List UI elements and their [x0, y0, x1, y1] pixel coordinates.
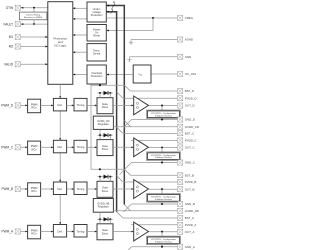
svg-text:PVDD_B: PVDD_B — [185, 180, 197, 184]
pin PWM_D — [15, 103, 20, 108]
wire regulator CD to diode row — [99, 129, 101, 135]
svg-text:Del.: Del. — [57, 145, 62, 149]
diagonal branch D to BST_D — [124, 85, 130, 91]
svg-text:BST_A: BST_A — [185, 216, 194, 220]
wire temp sense out — [73, 51, 87, 53]
pin OUT_B — [178, 187, 183, 192]
svg-text:BST_B: BST_B — [185, 173, 194, 177]
svg-text:PVDD_A: PVDD_A — [185, 223, 197, 227]
svg-text:Pulldown Resistor: Pulldown Resistor — [155, 240, 172, 243]
bootstrap diode D — [104, 91, 109, 95]
config resistor box C — [147, 152, 181, 161]
wire Del to Timing A — [67, 231, 73, 233]
pin PWM_C — [15, 145, 20, 150]
pin AGND — [178, 37, 183, 42]
stub to gate drive C left — [99, 135, 101, 139]
bus1 branch to GVDD_AB line — [124, 205, 130, 212]
wire overload out — [73, 74, 87, 76]
GVDD_AB regulator block — [93, 199, 113, 213]
pin PVDD_A — [178, 222, 183, 227]
svg-text:Drive: Drive — [102, 189, 109, 193]
svg-text:Sense: Sense — [93, 52, 101, 56]
wire BST_B — [131, 174, 178, 176]
PWM receiver block C — [28, 141, 41, 155]
power stage FET symbols D — [136, 102, 138, 104]
wire BST_A — [123, 217, 178, 219]
wire BST_D — [131, 90, 178, 92]
svg-text:Protection: Protection — [91, 74, 103, 78]
bus 1 (4-bit) to UVP — [123, 6, 125, 205]
wire Timing to gate drive C — [87, 146, 95, 148]
power stage triangle B — [134, 180, 149, 199]
pin FAULT — [15, 22, 20, 27]
wire Timing to gate drive A — [87, 231, 95, 233]
overload protection block — [87, 65, 106, 84]
wire logic box to Del chain — [59, 84, 61, 98]
wire gate drive to power stage D — [113, 104, 132, 106]
PWM receiver block A — [28, 225, 41, 239]
svg-text:GND: GND — [185, 55, 191, 59]
wire Itrip to overload protection — [107, 74, 134, 76]
branch D from rail — [91, 84, 124, 86]
wire OUT_C to config resistor — [161, 146, 163, 148]
svg-text:GND_B: GND_B — [185, 202, 195, 206]
stub to gate drive A left — [99, 219, 101, 224]
svg-text:OUT_A: OUT_A — [185, 230, 195, 234]
junction anode A — [99, 218, 101, 220]
svg-text:M2: M2 — [9, 45, 14, 49]
branch B from rail — [91, 168, 124, 170]
Timing block C — [74, 140, 87, 153]
junction FAULT-pullup — [33, 23, 35, 25]
junction anode C — [99, 134, 101, 136]
wire OUT_A — [148, 231, 177, 233]
svg-text:VREG: VREG — [185, 16, 194, 20]
under-voltage protection block — [87, 2, 106, 22]
wire GVDD_AB pin line — [113, 210, 177, 212]
wire config resistor to GND_A — [161, 245, 163, 247]
svg-text:OUT_D: OUT_D — [185, 104, 195, 108]
stub to gate drive B right — [109, 177, 111, 182]
wire POR out — [73, 34, 87, 36]
arrow into logic box from overload protection — [73, 73, 75, 75]
svg-text:PWM_B: PWM_B — [1, 187, 13, 191]
power stage FET symbols C — [136, 144, 138, 146]
svg-text:Regulator: Regulator — [98, 205, 109, 209]
svg-text:Timing: Timing — [77, 187, 85, 191]
pin PVDD_C — [178, 138, 183, 143]
bootstrap diode row A — [97, 218, 113, 220]
config resistor box A — [147, 236, 181, 245]
pin BST_D — [178, 88, 183, 93]
wire gate drive to power stage A — [113, 231, 132, 233]
junction cathode C — [109, 134, 111, 136]
wire M2 — [20, 46, 47, 48]
wire regulator AB to diode row — [99, 212, 101, 219]
svg-text:RCv: RCv — [31, 147, 37, 151]
pin OUT_D — [178, 103, 183, 108]
wire M1 — [20, 36, 47, 38]
wire Del to Timing B — [67, 188, 73, 190]
wire OTW to logic box — [20, 7, 47, 9]
stub to gate drive D right — [109, 93, 111, 98]
svg-text:Timing: Timing — [77, 229, 85, 233]
bus1 branch to GVDD_CD line — [124, 120, 130, 126]
power stage FET symbols A — [136, 228, 138, 230]
wire FAULT to logic box — [20, 23, 47, 25]
svg-text:PWM_A: PWM_A — [1, 230, 14, 234]
svg-text:Resistors to VREG: Resistors to VREG — [24, 16, 43, 19]
svg-text:OC_ADJ: OC_ADJ — [185, 72, 197, 76]
power stage triangle A — [134, 222, 149, 241]
Del block D — [53, 98, 66, 111]
pin OUT_C — [178, 145, 183, 150]
pin VREG — [178, 15, 183, 20]
wire OUT_C — [148, 147, 177, 149]
wire OUT_B — [148, 188, 177, 190]
wire receiver to Del A — [41, 231, 52, 233]
wire GVDD_CD pin line — [113, 126, 177, 128]
Timing block D — [74, 98, 87, 111]
wire config resistor to GND_D — [161, 119, 163, 120]
svg-text:Drive: Drive — [102, 231, 109, 235]
svg-text:Pulldown Resistor: Pulldown Resistor — [155, 198, 172, 201]
wire VREG drop — [152, 18, 154, 31]
svg-text:GND_C: GND_C — [185, 161, 195, 165]
svg-text:Protection: Protection — [91, 13, 103, 17]
pin GND_D — [178, 117, 183, 122]
power on reset block — [87, 25, 106, 42]
wire config resistor to GND_B — [161, 202, 163, 204]
wire AGND — [131, 39, 178, 41]
arrow bus1 into UVP — [107, 4, 109, 6]
wire UVP out 1 — [73, 7, 87, 9]
bus2 branch to BST_C — [117, 127, 123, 133]
arrow M2 into logic box — [45, 45, 47, 47]
Timing block A — [74, 225, 87, 238]
junction branch B — [99, 168, 101, 170]
wire OUT_D — [148, 105, 177, 107]
wire config resistor to GND_C — [161, 160, 163, 162]
power stage FET symbols B — [136, 186, 138, 188]
stub to gate drive A right — [109, 219, 111, 224]
junction branch D — [99, 84, 101, 86]
arrow into logic box from temp sense — [73, 51, 75, 53]
svg-text:GND_D: GND_D — [185, 118, 195, 122]
ground AGND — [130, 40, 132, 44]
svg-text:Pulldown Resistor: Pulldown Resistor — [155, 156, 172, 159]
junction VREG — [152, 17, 154, 19]
svg-text:RCv: RCv — [31, 105, 37, 109]
wire VALID — [20, 63, 47, 65]
wire pullup stub top — [33, 8, 35, 12]
bootstrap diode row C — [97, 134, 113, 136]
pin PVDD_D — [178, 96, 183, 101]
svg-text:OUT_C: OUT_C — [185, 146, 195, 150]
gate drive block B — [97, 181, 113, 197]
pin BST_C — [178, 131, 183, 136]
Itrip block — [133, 65, 151, 83]
svg-text:Pulldown Resistor: Pulldown Resistor — [155, 114, 172, 117]
bootstrap diode row B — [97, 176, 113, 178]
wire Del to Timing C — [67, 146, 73, 148]
Timing block B — [74, 182, 87, 195]
bus 2 (4-bit) to UVP — [116, 12, 118, 212]
pin PWM_A — [15, 229, 20, 234]
svg-text:OUT_B: OUT_B — [185, 187, 195, 191]
svg-text:Regulator: Regulator — [98, 122, 109, 126]
pin GVDD_CD — [178, 124, 183, 129]
svg-text:Del.: Del. — [57, 103, 62, 107]
svg-text:Del.: Del. — [57, 229, 62, 233]
arrow bus2 into UVP — [107, 11, 109, 13]
pin OC_ADJ — [178, 71, 183, 76]
svg-text:4: 4 — [111, 7, 113, 11]
protection and I/O logic block — [48, 2, 73, 85]
svg-text:AGND: AGND — [185, 38, 193, 42]
diagonal branch B to BST_B — [124, 169, 130, 175]
junction cathode A — [109, 218, 111, 220]
pin GND_A — [178, 244, 183, 249]
svg-text:4: 4 — [113, 1, 115, 5]
wire pullup stub bottom — [33, 20, 35, 24]
config resistor box B — [147, 194, 181, 203]
power stage triangle D — [134, 96, 149, 115]
wire PVDD_D — [123, 97, 178, 99]
svg-text:PVDD_D: PVDD_D — [185, 96, 197, 100]
diagonal GND_A clipped — [128, 247, 131, 250]
PWM receiver block D — [28, 99, 41, 113]
arrow FAULT output toward pin — [21, 23, 23, 25]
pin PVDD_B — [178, 179, 183, 184]
pin GND_C — [178, 160, 183, 165]
wire gate drive to power stage C — [113, 146, 132, 148]
wire PVDD_A — [131, 224, 178, 226]
pin GND — [178, 54, 183, 59]
junction anode B — [99, 176, 101, 178]
svg-text:GVDD_AB: GVDD_AB — [185, 209, 199, 213]
Del block A — [53, 225, 66, 238]
wire Del to Timing D — [67, 104, 73, 106]
wire OUT_D to config resistor — [161, 105, 163, 107]
svg-text:Reset: Reset — [93, 34, 100, 38]
Del block B — [53, 182, 66, 195]
svg-text:Timing: Timing — [77, 145, 85, 149]
stub to gate drive D left — [99, 93, 101, 98]
svg-text:VALID: VALID — [4, 63, 14, 67]
wire gate drive to power stage B — [113, 188, 132, 190]
gate drive block C — [97, 140, 113, 156]
svg-text:M1: M1 — [9, 35, 14, 39]
pin VALID — [15, 62, 20, 67]
wire GND_D — [132, 119, 178, 121]
Del block C — [53, 140, 66, 153]
pin BST_A — [178, 215, 183, 220]
arrow into logic box from UVP 1 — [73, 7, 75, 9]
svg-text:Internal Pullup: Internal Pullup — [26, 13, 41, 16]
svg-text:Drive: Drive — [102, 105, 109, 109]
arrow M1 into logic box — [45, 36, 47, 38]
pin M2 — [15, 44, 20, 49]
svg-text:GVDD_CD: GVDD_CD — [185, 125, 199, 129]
bootstrap diode C — [104, 133, 109, 137]
svg-text:PWM_D: PWM_D — [1, 104, 14, 108]
stub to gate drive B left — [99, 177, 101, 182]
svg-text:Timing: Timing — [77, 103, 85, 107]
wire VREG to UVP — [106, 17, 177, 19]
diagonal GND_B to bus — [124, 204, 132, 212]
junction cathode D — [109, 92, 111, 94]
arrow into POR — [107, 29, 109, 31]
svg-text:Drive: Drive — [102, 147, 109, 151]
arrow VALID into logic box — [45, 63, 47, 65]
wire GND_C — [132, 162, 178, 164]
bootstrap diode row D — [97, 92, 113, 94]
pin OUT_A — [178, 229, 183, 234]
wire OUT_A to config resistor — [161, 231, 163, 233]
svg-text:RCv: RCv — [31, 232, 37, 236]
wire OUT_B to config resistor — [161, 188, 163, 190]
wire UVP out 2 — [73, 18, 87, 20]
ground GND — [129, 57, 131, 61]
temp sense block — [87, 44, 106, 61]
wire PWM_B to receiver — [20, 188, 25, 190]
wire GND_A — [132, 246, 178, 248]
arrow into overload protection — [107, 73, 109, 75]
wire GND_B — [132, 203, 178, 205]
diagonal GND_C to bus — [120, 163, 132, 175]
svg-text:OTW: OTW — [6, 6, 13, 10]
svg-text:Del.: Del. — [57, 187, 62, 191]
arrow into logic box from POR — [73, 34, 75, 36]
svg-text:FAULT: FAULT — [3, 22, 13, 26]
arrow OTW output toward pin — [21, 7, 23, 9]
wire Timing to gate drive D — [87, 104, 95, 106]
svg-text:BST_C: BST_C — [185, 131, 194, 135]
wire OC_ADJ to Itrip — [151, 73, 178, 75]
svg-text:PWM_C: PWM_C — [1, 146, 14, 150]
junction anode D — [99, 92, 101, 94]
wire receiver to Del C — [41, 146, 52, 148]
bootstrap diode B — [104, 175, 109, 179]
wire BST_C — [123, 132, 178, 134]
junction OTW-pullup — [33, 7, 35, 9]
stub to gate drive C right — [109, 135, 111, 139]
bus2 branch to BST_A — [117, 212, 123, 218]
svg-text:PVDD_C: PVDD_C — [185, 139, 197, 143]
gate drive block A — [97, 224, 113, 240]
pin M1 — [15, 34, 20, 39]
svg-text:I/O Logic: I/O Logic — [54, 44, 67, 48]
arrow into logic box from UVP 2 — [73, 18, 75, 20]
wire Timing to gate drive B — [87, 188, 95, 190]
pin GND_B — [178, 201, 183, 206]
power stage triangle C — [134, 138, 149, 157]
bus2 branch to PVDD_D — [117, 92, 123, 99]
PWM receiver block B — [28, 183, 41, 197]
bus2 branch to PVDD_B — [117, 176, 123, 182]
diagonal GND_D to bus — [124, 120, 132, 128]
wire PVDD_B — [123, 181, 178, 183]
svg-text:BST_D: BST_D — [185, 89, 194, 93]
wire PWM_C to receiver — [20, 146, 25, 148]
pin OTW — [15, 5, 20, 10]
pin PWM_B — [15, 186, 20, 191]
svg-text:RCv: RCv — [31, 189, 37, 193]
wire GND — [130, 56, 178, 58]
wire PVDD_C — [131, 140, 178, 142]
pin GVDD_AB — [178, 208, 183, 213]
pin BST_B — [178, 173, 183, 178]
wire receiver to Del D — [41, 104, 52, 106]
wire PWM_D to receiver — [20, 104, 25, 106]
wire receiver to Del B — [41, 188, 52, 190]
internal pullup resistors box — [19, 12, 47, 20]
gate drive block D — [97, 98, 113, 114]
bus width tick 1 — [113, 4, 115, 8]
config resistor box D — [147, 110, 181, 119]
bus width tick 2 — [111, 10, 113, 14]
svg-text:GND_A: GND_A — [185, 245, 195, 249]
junction cathode B — [109, 176, 111, 178]
wire PWM_A to receiver — [20, 231, 25, 233]
GVDD_CD regulator block — [93, 116, 113, 129]
bootstrap diode A — [104, 217, 109, 221]
rail from overload protection — [90, 84, 92, 169]
